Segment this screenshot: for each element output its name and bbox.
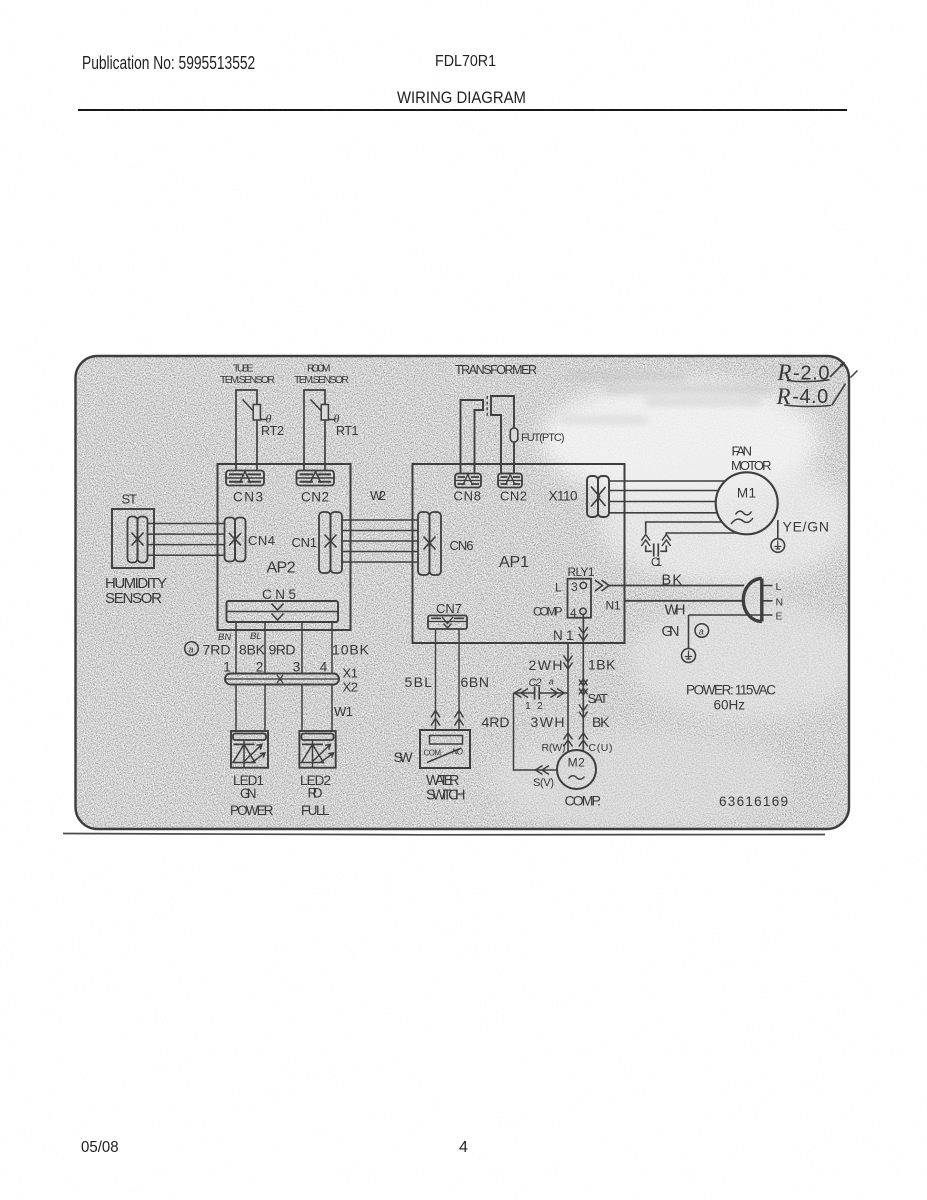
svg-text:W1: W1 bbox=[334, 704, 353, 719]
svg-text:63616169: 63616169 bbox=[719, 794, 788, 809]
svg-text:4: 4 bbox=[570, 606, 577, 620]
svg-text:COMP: COMP bbox=[533, 605, 563, 619]
svg-text:6BN: 6BN bbox=[461, 674, 490, 690]
svg-text:CN6: CN6 bbox=[450, 538, 474, 553]
svg-text:CN5: CN5 bbox=[262, 587, 296, 602]
svg-text:BL: BL bbox=[250, 631, 262, 642]
svg-text:8BK: 8BK bbox=[239, 642, 266, 658]
svg-text:SW: SW bbox=[394, 749, 414, 765]
svg-text:4: 4 bbox=[320, 660, 328, 675]
svg-text:S(V): S(V) bbox=[533, 777, 554, 789]
svg-text:CN2: CN2 bbox=[301, 490, 329, 505]
svg-text:FAN: FAN bbox=[732, 444, 753, 459]
svg-text:CN2: CN2 bbox=[500, 489, 527, 504]
svg-text:X1: X1 bbox=[343, 666, 359, 681]
svg-text:RLY1: RLY1 bbox=[568, 565, 595, 579]
svg-text:RT2: RT2 bbox=[261, 424, 284, 438]
svg-text:SWITCH: SWITCH bbox=[426, 788, 466, 804]
svg-text:C1: C1 bbox=[651, 557, 662, 569]
svg-text:NO: NO bbox=[452, 748, 463, 757]
svg-text:COM: COM bbox=[424, 749, 442, 758]
svg-text:POWER: 115VAC: POWER: 115VAC bbox=[686, 683, 776, 698]
svg-text:3: 3 bbox=[293, 660, 301, 675]
svg-text:L: L bbox=[776, 581, 782, 593]
svg-text:X2: X2 bbox=[343, 680, 359, 695]
svg-text:1BK: 1BK bbox=[588, 657, 616, 673]
svg-text:BK: BK bbox=[662, 573, 683, 589]
svg-text:-4.0: -4.0 bbox=[792, 386, 828, 408]
svg-text:ST: ST bbox=[122, 492, 138, 507]
svg-text:CN8: CN8 bbox=[454, 489, 482, 504]
svg-text:SAT: SAT bbox=[588, 691, 609, 706]
svg-text:C2: C2 bbox=[529, 677, 542, 689]
svg-text:TUBE: TUBE bbox=[233, 363, 254, 375]
svg-text:3WH: 3WH bbox=[531, 714, 565, 730]
svg-text:WH: WH bbox=[665, 603, 686, 619]
svg-text:AP2: AP2 bbox=[267, 560, 296, 577]
svg-text:a: a bbox=[549, 677, 554, 687]
svg-text:5BL: 5BL bbox=[405, 674, 433, 690]
svg-text:GN: GN bbox=[662, 624, 680, 640]
svg-text:TEM.SENSOR: TEM.SENSOR bbox=[220, 374, 275, 386]
svg-text:ROOM: ROOM bbox=[307, 363, 331, 375]
svg-text:FULL: FULL bbox=[301, 803, 330, 818]
svg-text:BK: BK bbox=[592, 714, 610, 730]
svg-text:W2: W2 bbox=[370, 488, 386, 503]
svg-text:RT1: RT1 bbox=[336, 424, 359, 438]
svg-text:M1: M1 bbox=[737, 486, 757, 501]
svg-text:1: 1 bbox=[525, 700, 531, 712]
svg-text:4RD: 4RD bbox=[482, 714, 510, 730]
svg-text:L: L bbox=[555, 581, 562, 595]
svg-text:GN: GN bbox=[240, 786, 257, 801]
svg-text:FUT(PTC): FUT(PTC) bbox=[521, 432, 565, 444]
svg-text:2: 2 bbox=[537, 700, 543, 712]
svg-text:YE/GN: YE/GN bbox=[783, 519, 830, 535]
svg-text:N1: N1 bbox=[606, 599, 621, 613]
svg-text:CN7: CN7 bbox=[436, 601, 462, 616]
svg-text:3: 3 bbox=[571, 580, 578, 594]
svg-text:N: N bbox=[776, 597, 784, 609]
svg-text:TEM.SENSOR: TEM.SENSOR bbox=[294, 374, 349, 386]
svg-text:MOTOR: MOTOR bbox=[731, 458, 772, 473]
svg-text:SENSOR: SENSOR bbox=[105, 590, 162, 607]
svg-text:1: 1 bbox=[223, 660, 231, 675]
svg-text:TRANSFORMER: TRANSFORMER bbox=[455, 363, 537, 377]
svg-text:X110: X110 bbox=[549, 489, 578, 504]
svg-text:2WH: 2WH bbox=[529, 657, 563, 673]
svg-text:C(U): C(U) bbox=[589, 742, 613, 754]
svg-text:POWER: POWER bbox=[230, 803, 274, 818]
svg-text:7RD: 7RD bbox=[203, 642, 231, 658]
svg-text:R: R bbox=[777, 360, 792, 385]
svg-text:60Hz: 60Hz bbox=[714, 698, 746, 713]
svg-text:2: 2 bbox=[256, 660, 264, 675]
svg-text:M2: M2 bbox=[568, 756, 586, 770]
svg-text:R(W): R(W) bbox=[542, 742, 566, 754]
svg-text:a: a bbox=[189, 645, 194, 655]
svg-text:10BK: 10BK bbox=[332, 642, 370, 658]
svg-text:R: R bbox=[776, 384, 791, 409]
svg-text:RD: RD bbox=[308, 786, 323, 801]
svg-text:CN4: CN4 bbox=[248, 533, 275, 548]
svg-text:AP1: AP1 bbox=[499, 554, 529, 571]
svg-text:-2.0: -2.0 bbox=[793, 362, 830, 384]
svg-text:CN1: CN1 bbox=[292, 535, 318, 550]
svg-text:9RD: 9RD bbox=[269, 642, 296, 658]
svg-text:E: E bbox=[776, 611, 783, 623]
svg-text:COMP.: COMP. bbox=[565, 793, 602, 809]
svg-text:CN3: CN3 bbox=[233, 490, 263, 505]
svg-text:a: a bbox=[699, 627, 704, 637]
